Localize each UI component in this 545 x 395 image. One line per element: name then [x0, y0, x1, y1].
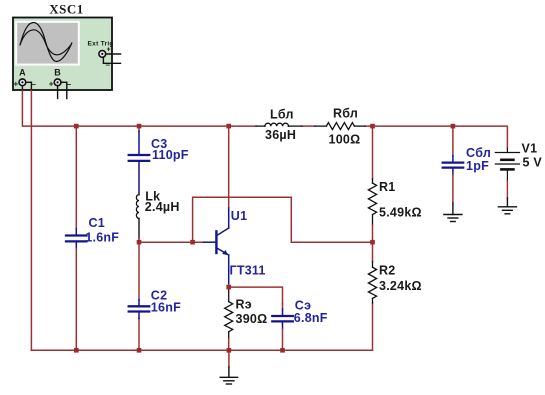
wire base node horizontal: [139, 241, 204, 243]
svg-text:+: +: [49, 80, 54, 89]
battery V1: [495, 149, 519, 199]
svg-text:3.24kΩ: 3.24kΩ: [379, 279, 422, 293]
svg-text:36µH: 36µH: [265, 128, 296, 142]
label C3: [151, 137, 189, 162]
capacitor C3: [129, 131, 150, 195]
capacitor C1: [66, 126, 87, 350]
wire emitter node: [229, 285, 283, 304]
terminal A: [14, 79, 37, 89]
svg-text:XSC1: XSC1: [49, 2, 84, 17]
svg-text:5.49kΩ: 5.49kΩ: [379, 206, 422, 220]
scope A pin connector black: [22, 82, 31, 90]
label C1: [85, 216, 119, 245]
svg-text:A: A: [19, 68, 26, 78]
label Ce: [294, 299, 328, 326]
svg-text:390Ω: 390Ω: [236, 312, 268, 326]
label Re: [236, 298, 268, 326]
terminal Ext Trig: [99, 47, 111, 70]
resistor Re: [225, 287, 233, 350]
label C2: [151, 289, 181, 315]
label Ext Trig: [88, 40, 114, 47]
svg-text:1pF: 1pF: [466, 159, 489, 173]
ground below V1: [498, 198, 516, 214]
svg-text:ГТ311: ГТ311: [230, 263, 266, 277]
label U1: [231, 209, 247, 223]
inductor Lk: [136, 195, 139, 243]
ext trig stub wires: [103, 54, 120, 63]
capacitor C2: [129, 300, 150, 319]
svg-text:C1: C1: [89, 216, 105, 230]
oscilloscope screen: [16, 22, 79, 65]
wire C2 branch: [138, 242, 140, 350]
wire scope A+ down to top rail: [22, 91, 256, 127]
svg-text:100Ω: 100Ω: [329, 133, 361, 147]
label Lk: [145, 190, 180, 214]
wire collector to top rail: [228, 126, 230, 208]
label V1: [522, 141, 543, 169]
capacitor Ce: [272, 304, 293, 351]
wire R1 bottom to node: [372, 225, 374, 262]
wire scope A- down to bottom rail: [30, 91, 32, 351]
scope B pin stubs: [58, 82, 67, 98]
resistor R2: [368, 262, 376, 303]
label GT311: [230, 263, 266, 277]
label Cbl: [466, 146, 491, 173]
resistor Rbl: [315, 123, 365, 130]
ground below Cbl: [444, 203, 462, 222]
svg-text:5 V: 5 V: [523, 156, 543, 170]
svg-text:–: –: [32, 80, 37, 89]
resistor R1: [368, 179, 376, 225]
svg-text:Rэ: Rэ: [236, 298, 252, 312]
label R2: [379, 263, 422, 293]
wire top rail right section: [302, 126, 507, 148]
svg-text:–: –: [106, 61, 111, 70]
svg-text:B: B: [54, 68, 61, 78]
scope trace wave 2: [21, 30, 72, 55]
svg-text:U1: U1: [231, 209, 247, 223]
svg-text:V1: V1: [522, 141, 538, 155]
svg-text:R2: R2: [379, 263, 395, 277]
label Rbl: [329, 106, 361, 146]
label XSC1: [49, 2, 84, 17]
svg-text:+: +: [107, 47, 111, 54]
svg-text:1.6nF: 1.6nF: [85, 231, 119, 245]
capacitor Cbl: [443, 126, 464, 203]
label A: [19, 68, 26, 78]
svg-text:2.4µH: 2.4µH: [145, 200, 180, 214]
svg-text:+: +: [14, 80, 19, 89]
svg-text:16nF: 16nF: [151, 300, 181, 314]
label B: [54, 68, 61, 78]
svg-text:110pF: 110pF: [152, 148, 189, 162]
svg-text:R1: R1: [379, 180, 395, 194]
wire R1 top lead: [372, 126, 374, 179]
oscilloscope XSC1 body: [13, 18, 112, 91]
scope trace wave 1: [20, 23, 72, 62]
svg-text:Cбл: Cбл: [466, 146, 491, 160]
ground below bottom rail: [220, 350, 237, 384]
svg-text:Lбл: Lбл: [270, 108, 294, 122]
label Lbl: [265, 108, 296, 142]
wire C3 branch top: [138, 126, 140, 131]
svg-text:6.8nF: 6.8nF: [294, 311, 328, 325]
wire bottom rail: [31, 303, 372, 350]
transistor U1: [204, 208, 229, 285]
wire feedback loop base to R1R2 node: [193, 197, 373, 242]
label R1: [379, 180, 422, 220]
inductor Lbl: [256, 123, 302, 126]
junction node dots: [74, 124, 455, 353]
terminal B: [49, 79, 72, 89]
svg-text:Rбл: Rбл: [333, 106, 358, 120]
